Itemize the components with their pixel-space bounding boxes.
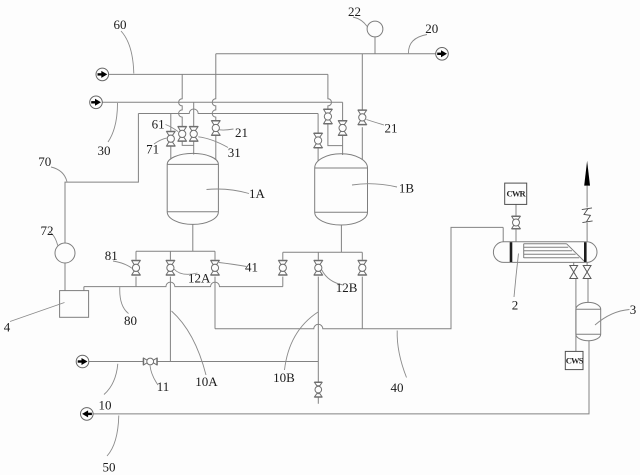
wire CWR box to valve stem <box>515 204 517 215</box>
heat exchanger U2 right tubesheet <box>584 242 587 262</box>
heat exchanger U2 shell <box>493 242 597 263</box>
svg-text:70: 70 <box>38 154 51 169</box>
wire valve 81 outlet to manifold <box>135 277 137 287</box>
inlet arrow circle line 10 <box>76 355 89 368</box>
leader 72 <box>49 232 58 246</box>
svg-text:3: 3 <box>630 302 637 317</box>
wire frame: line2 left corner down x=138.4 then left at y=182.1 then down to circle 72 <box>65 114 138 244</box>
wire valve 21 right outlet into vessel 1B right shoulder <box>361 127 363 160</box>
svg-text:CWS: CWS <box>566 356 584 366</box>
svg-text:81: 81 <box>105 248 118 263</box>
svg-text:61: 61 <box>152 117 165 132</box>
vent stack black arrow <box>584 161 590 186</box>
leader 10B <box>285 312 319 370</box>
CWS box <box>565 351 583 369</box>
wire CWS column from left butterfly valve down to CWS box <box>575 279 577 352</box>
wire vessel 1B bottom nozzle <box>340 225 342 252</box>
wire valve 12A outlet column 10A down to line 10 <box>169 277 171 362</box>
inlet arrow circle line 60 <box>96 68 109 81</box>
svg-text:50: 50 <box>103 460 116 475</box>
wire line2 right corner down to valve A of 1B <box>317 114 319 133</box>
wire 1A bottom header y=251.3 <box>136 250 215 252</box>
leader 1B <box>352 184 397 187</box>
valve 71 <box>166 131 175 146</box>
leader 70 <box>51 167 67 182</box>
wire valve 12B right outlet down to 40 line <box>361 277 363 329</box>
leader 61 <box>166 125 179 132</box>
svg-text:22: 22 <box>348 4 361 19</box>
valve 21 right <box>358 110 367 125</box>
leader 11 <box>150 366 158 386</box>
wire valve 21 left outlet into vessel 1A right shoulder <box>215 135 217 159</box>
wire manifold y=286.6 from box4 to 12B left column, hops at x=170.4 and x=215 <box>84 282 283 291</box>
leader 21 left <box>219 129 233 130</box>
valve 11 horizontal on line 10 <box>143 358 157 365</box>
wire column line20 T at x=362.3 down to valve 21 right <box>361 54 363 110</box>
wire gauge 22 stem <box>374 37 376 54</box>
wire valve 41 stem <box>214 251 216 259</box>
vessel 3 <box>576 302 601 340</box>
wire bus 60 horizontal y=74.4 <box>109 73 328 75</box>
valve 31 <box>189 126 198 141</box>
svg-text:41: 41 <box>245 260 258 275</box>
leader 22 <box>353 17 367 27</box>
svg-text:30: 30 <box>98 143 111 158</box>
vessel 1A <box>167 153 218 224</box>
leader 12B <box>322 270 343 285</box>
ARROW CIRCLES <box>76 48 448 421</box>
svg-text:4: 4 <box>4 320 11 335</box>
leader 31 <box>198 137 228 148</box>
VALVES <box>132 109 592 397</box>
wire line 20 horizontal y=53.8 <box>216 53 436 55</box>
leader 21 right <box>366 120 384 126</box>
wire exchanger bottom nozzle stubs <box>574 262 587 265</box>
butterfly valve right under exchanger <box>583 266 591 279</box>
svg-text:21: 21 <box>235 125 248 140</box>
svg-text:11: 11 <box>157 379 170 394</box>
wire valve 71 outlet into vessel 1A left shoulder <box>170 146 172 158</box>
vent stack break symbol <box>582 208 593 223</box>
valve 12B left <box>278 260 287 275</box>
valve V1B (61 mirror) <box>323 109 332 124</box>
valve A of 1B <box>314 133 323 148</box>
wire line2 header y=113.5 from x=138.4 to x=318.1 with hop bump at x=193.7 <box>138 109 318 113</box>
wire drain valve column below line10 at x=318.3 <box>317 362 319 404</box>
wire valve A outlet into vessel 1B left shoulder <box>317 148 319 161</box>
wire valve 81 stem <box>135 251 137 259</box>
svg-text:72: 72 <box>41 223 54 238</box>
wire valve 12B left stem <box>282 252 284 259</box>
outlet arrow circle line 20 <box>436 48 449 61</box>
svg-text:12A: 12A <box>188 271 211 286</box>
valve 41 <box>211 260 220 275</box>
wire CWR valve to exchanger top nozzle <box>515 229 517 242</box>
wire vent line from exchanger top <box>586 186 588 242</box>
leader 30 <box>108 103 118 142</box>
svg-text:10A: 10A <box>195 374 218 389</box>
drain valve on column 10B <box>314 382 322 397</box>
wire column 10B from valve 12B mid down to line10, hop over 40-line <box>317 277 319 362</box>
heat exchanger U2 tube bundle <box>524 244 585 262</box>
wire valve 12B right stem <box>361 252 363 259</box>
valve 21 left <box>211 121 220 136</box>
wire line 10 y=361.5 <box>89 361 318 363</box>
svg-text:40: 40 <box>391 380 404 395</box>
wire valve 12A stem <box>169 251 171 259</box>
valve 81 <box>132 260 141 275</box>
leader 12A <box>174 269 198 274</box>
svg-text:21: 21 <box>385 121 398 136</box>
leader 2 <box>514 254 519 298</box>
valve 12A <box>166 260 175 275</box>
wire valve V2B outlet to vessel 1B top nozzle <box>342 135 344 155</box>
wire valve 41 outlet column down to 40 line corner <box>214 277 216 329</box>
leader 4 <box>10 303 65 322</box>
box 4 <box>60 291 89 318</box>
wire valve 71 stem from line2 down <box>170 114 172 131</box>
wire bus 30 horizontal y=102.3 <box>102 101 342 103</box>
leader 20 <box>408 35 427 54</box>
wire valve 12B left outlet corner into manifold <box>282 277 284 287</box>
svg-text:31: 31 <box>228 145 241 160</box>
svg-text:10: 10 <box>99 398 112 413</box>
leader 3 <box>595 310 630 326</box>
valve 12B mid <box>314 260 323 275</box>
valve 12B right <box>358 260 367 275</box>
leader 1A <box>207 189 250 194</box>
wire 1B bottom header y=252.3 <box>283 251 363 253</box>
wire column from bus60 T at x=182.2 down to valve 61, hops over bus30 and line2 <box>179 74 183 126</box>
CWR box <box>505 183 527 204</box>
svg-text:60: 60 <box>114 17 127 32</box>
svg-text:71: 71 <box>146 142 159 157</box>
wire bus 60 corner down at x=327.9 with hop over bus 30 <box>328 74 332 108</box>
butterfly valve left under exchanger <box>570 266 578 279</box>
leader 80 <box>120 287 129 313</box>
wire valve 61 outlet down and over to center column <box>182 141 194 146</box>
heat exchanger U2 left tubesheet <box>510 242 513 262</box>
svg-text:20: 20 <box>425 21 438 36</box>
leader 71 <box>154 138 167 144</box>
outlet arrow circle line 50 (points left) <box>81 408 94 421</box>
wire vessel 3 top nozzle from right butterfly valve <box>587 279 589 303</box>
wire valve 31 outlet to vessel 1A top nozzle <box>193 141 195 155</box>
leader 60 <box>121 31 134 74</box>
leader 81 <box>113 261 132 268</box>
wire valve V1B outlet down and over to 1B center column <box>328 124 343 146</box>
svg-text:10B: 10B <box>273 370 295 385</box>
circle 72 <box>55 243 75 263</box>
wire circle 72 to box 4 <box>64 263 66 291</box>
wire exchanger feed nozzle stub <box>502 227 504 241</box>
svg-text:1B: 1B <box>399 181 415 196</box>
gauge 22 circle <box>367 21 383 37</box>
leader 40 <box>397 331 406 378</box>
leader 10A <box>172 311 207 375</box>
svg-text:12B: 12B <box>336 280 358 295</box>
wire line 20 left corner down, column to valve 21 left with hops <box>212 54 216 121</box>
leader 10 <box>104 364 118 395</box>
leader 50 <box>107 416 119 457</box>
wire 40 line y=328.8 with hop at x=318.3, corner up at x=451 to exchanger feed <box>215 227 503 328</box>
wire valve 12B mid stem <box>317 252 319 259</box>
vessel 1B <box>315 154 368 225</box>
valve 61 <box>178 126 187 141</box>
inlet arrow circle line 30 <box>90 96 103 109</box>
wire bus 30 corner down at x=342.6 to valve V2B <box>342 102 344 120</box>
wire column from bus30 T at x=193.7 down to valve 31 <box>193 102 195 126</box>
wire line 50 y=413.7 <box>93 341 589 414</box>
svg-text:2: 2 <box>512 298 519 313</box>
wire vessel 1A bottom nozzle <box>192 225 194 252</box>
valve V2B (31 mirror) <box>338 121 347 136</box>
svg-text:80: 80 <box>124 313 137 328</box>
leader 41 <box>219 263 247 267</box>
svg-text:1A: 1A <box>249 186 266 201</box>
svg-text:CWR: CWR <box>507 189 527 199</box>
CWR valve <box>512 216 521 229</box>
